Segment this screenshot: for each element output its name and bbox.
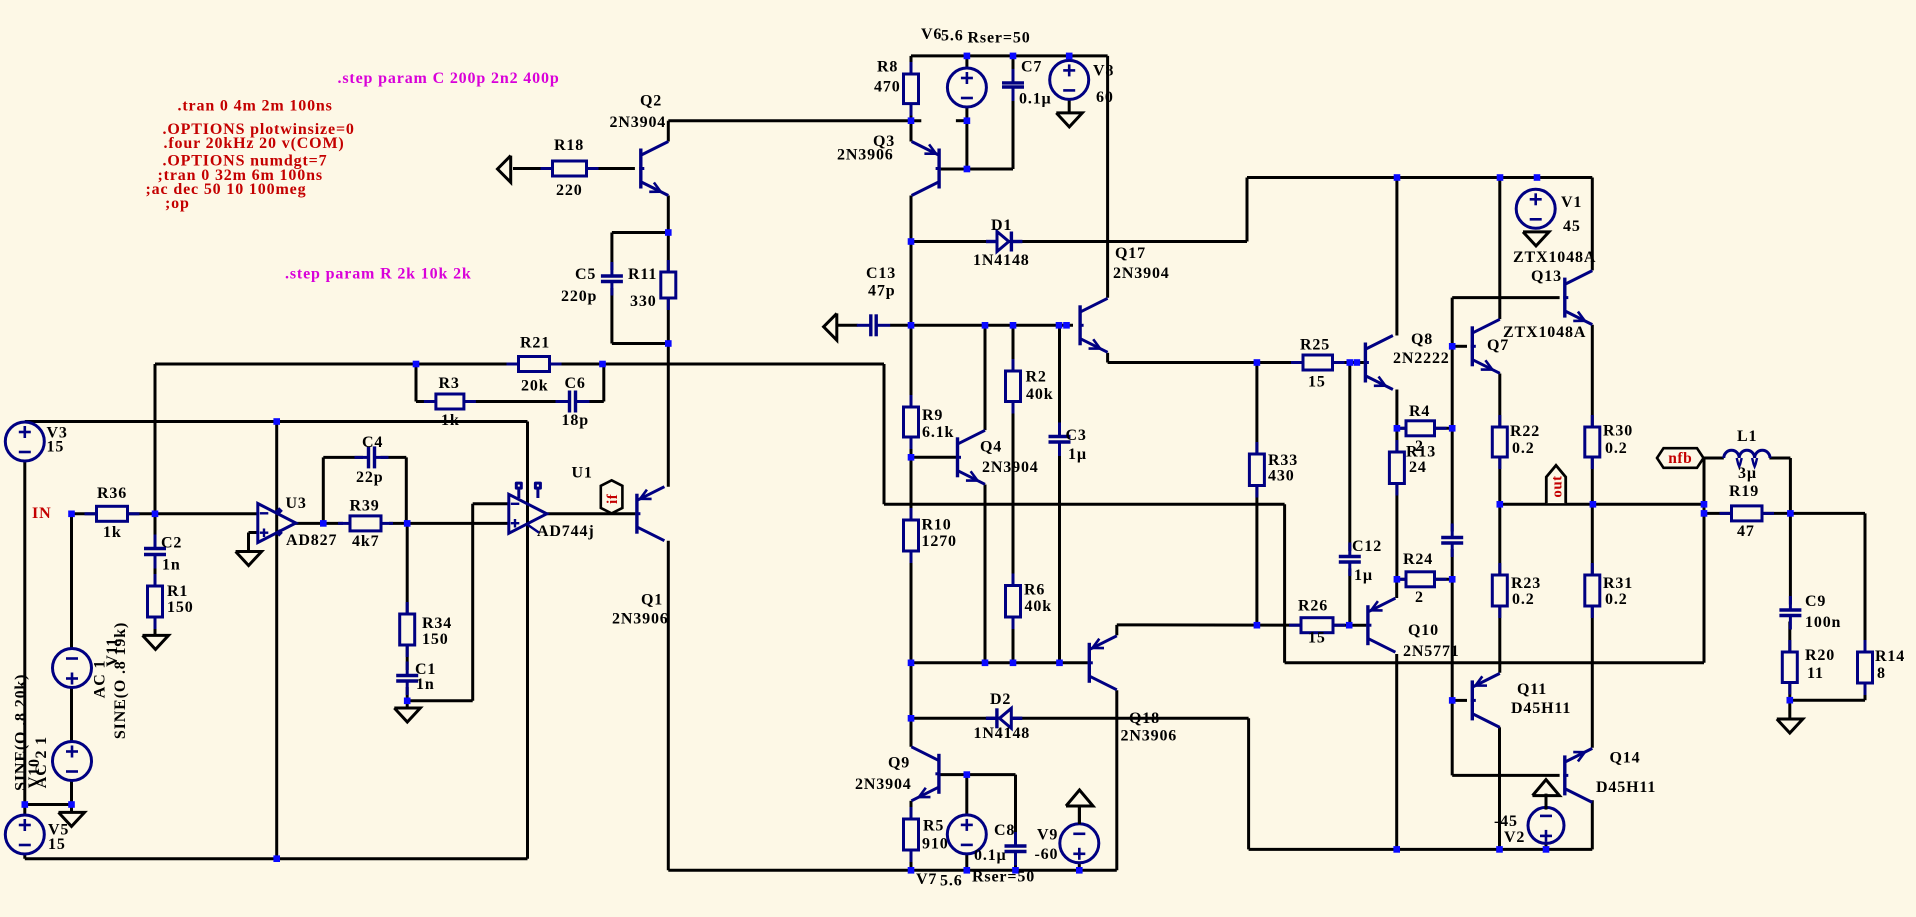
svg-text:-60: -60 — [1035, 846, 1059, 863]
svg-text:V7: V7 — [916, 871, 937, 888]
wire R3 drop — [415, 364, 418, 402]
capacitor C3 — [1048, 437, 1072, 443]
wire V6 top — [965, 56, 968, 68]
ground below V1 — [1523, 232, 1549, 246]
svg-text:C9: C9 — [1805, 593, 1826, 610]
svg-text:Q10: Q10 — [1408, 622, 1439, 639]
wire U1 minus bottom — [407, 699, 473, 702]
transistor Q11 — [1471, 680, 1474, 720]
wire R39 right to U1+ — [389, 522, 509, 525]
svg-text:C7: C7 — [1021, 59, 1042, 76]
wire V5 top tap — [25, 803, 72, 806]
resistor R4 — [1394, 427, 1406, 430]
wire bottom mid rail — [668, 869, 1117, 872]
svg-text:40k: 40k — [1025, 598, 1052, 615]
op-amp U3 — [258, 504, 296, 543]
resistor R22 — [1498, 415, 1501, 427]
svg-text:R23: R23 — [1511, 575, 1541, 592]
wire Q4 emitter down — [984, 485, 987, 663]
svg-text:SINE(O .8 19k): SINE(O .8 19k) — [112, 622, 129, 739]
svg-text:470: 470 — [874, 79, 901, 96]
wire gnd stem V10 — [70, 805, 73, 813]
wire C5 column — [610, 233, 613, 271]
resistor R8 — [910, 62, 913, 74]
wire V7 top — [965, 775, 968, 815]
wire Q13 emitter down — [1591, 325, 1594, 505]
wire Q1 collector down — [667, 541, 670, 871]
svg-text:V8: V8 — [1093, 63, 1114, 80]
wire R33 column — [1255, 363, 1258, 626]
svg-text:Q4: Q4 — [980, 439, 1002, 456]
capacitor C4 — [369, 445, 375, 469]
wire C6 rise — [602, 364, 605, 402]
svg-text:150: 150 — [167, 599, 194, 616]
svg-text:.tran 0 4m 2m 100ns: .tran 0 4m 2m 100ns — [178, 98, 333, 115]
wire L1 right — [1769, 457, 1790, 460]
ground below V10 — [59, 812, 85, 826]
wire Q13 base run — [1452, 296, 1559, 299]
resistor R25 — [1291, 361, 1303, 364]
svg-text:R5: R5 — [923, 818, 944, 835]
svg-text:V2: V2 — [1504, 829, 1525, 846]
svg-text:2N3904: 2N3904 — [610, 114, 667, 131]
voltage source V9 — [1060, 824, 1099, 863]
svg-text:2N3904: 2N3904 — [1113, 265, 1170, 282]
svg-text:24: 24 — [1409, 459, 1427, 476]
svg-text:430: 430 — [1268, 468, 1295, 485]
transistor Q2 — [639, 149, 642, 189]
resistor R13 — [1395, 440, 1398, 452]
svg-text:2N2222: 2N2222 — [1393, 350, 1450, 367]
op-amp U1 comp stub — [528, 525, 539, 533]
svg-text:Q11: Q11 — [1517, 681, 1547, 698]
svg-text:R10: R10 — [922, 517, 952, 534]
wire IN to R36 to U3 — [72, 512, 258, 515]
capacitor C11 — [1440, 538, 1464, 544]
wire Q18 base run — [911, 661, 1088, 664]
diode D1 — [986, 240, 997, 243]
wire nfb long run — [1285, 661, 1704, 664]
svg-text:R18: R18 — [554, 137, 584, 154]
ground below R20 — [1777, 719, 1803, 733]
wire Q18 emitter rise — [1115, 625, 1118, 635]
ground below C1 — [394, 708, 420, 722]
resistor R11 — [667, 260, 670, 272]
voltage source V6 — [947, 68, 986, 107]
wire Q1 emitter up — [667, 344, 670, 487]
wire C12 column upper — [1348, 363, 1351, 552]
svg-text:nfb: nfb — [1668, 450, 1692, 467]
wire net A across — [884, 503, 1285, 506]
svg-text:R22: R22 — [1510, 423, 1540, 440]
wire Q18 collector drop — [1115, 690, 1118, 870]
capacitor C8 — [1004, 846, 1028, 852]
op-amp U3 minus mark — [260, 512, 269, 514]
wire Q8 collector up — [1395, 178, 1398, 336]
wire bottom-left rail — [25, 857, 528, 860]
wire C3 column upper — [1058, 325, 1061, 431]
svg-text:C12: C12 — [1352, 538, 1382, 555]
svg-text:1270: 1270 — [922, 533, 957, 550]
wire R3-C6 run — [416, 400, 564, 403]
wire U3 out — [294, 522, 343, 525]
wire C13 left — [838, 324, 858, 327]
svg-text:15: 15 — [47, 439, 65, 456]
voltage source V5 — [5, 815, 44, 854]
voltage source V8 — [1050, 60, 1089, 99]
wire driver node column lower — [1451, 549, 1454, 775]
wire V11-V10 column — [70, 514, 73, 805]
svg-text:100n: 100n — [1805, 614, 1841, 631]
wire V3-V5 column — [23, 422, 26, 859]
wire R4 run — [1397, 427, 1452, 430]
wire C8 bottom — [1014, 858, 1017, 870]
svg-text:R14: R14 — [1875, 648, 1905, 665]
wire R31 column — [1591, 504, 1594, 748]
wire R14 drop — [1864, 513, 1867, 652]
transistor Q1 — [635, 494, 638, 534]
svg-text:0.2: 0.2 — [1512, 440, 1535, 457]
resistor R1 — [154, 574, 157, 586]
wire Q17 collector up — [1106, 56, 1109, 298]
wire U1 out to Q1 — [547, 512, 636, 515]
svg-text:C3: C3 — [1066, 427, 1087, 444]
svg-text:R2: R2 — [1026, 369, 1047, 386]
wire Q7 emitter down — [1498, 374, 1501, 505]
wire C4 right run — [381, 456, 407, 459]
svg-text:V9: V9 — [1037, 827, 1058, 844]
svg-text:IN: IN — [32, 505, 51, 522]
wire upper right rail — [1247, 176, 1592, 179]
wire nfb vertical — [1703, 458, 1706, 663]
wire top supply rail — [911, 54, 1108, 57]
svg-text:0.2: 0.2 — [1512, 591, 1535, 608]
wire bottom right rail — [1249, 848, 1593, 851]
svg-text:R6: R6 — [1024, 582, 1045, 599]
voltage source V7 — [947, 815, 986, 854]
wire V9 bottom — [1078, 863, 1081, 871]
wire D1 run — [911, 240, 1247, 243]
wire R8 top — [910, 56, 913, 74]
svg-text:R34: R34 — [422, 615, 452, 632]
svg-text:3µ: 3µ — [1738, 465, 1757, 482]
wire V3 top rail — [25, 420, 528, 423]
wire C5 bottom run — [612, 342, 668, 345]
wire C4 right drop — [405, 457, 408, 523]
wire Q9 base run — [940, 773, 1015, 776]
svg-text:R11: R11 — [628, 266, 657, 283]
svg-text:C4: C4 — [362, 434, 383, 451]
resistor R39 — [338, 522, 350, 525]
resistor R30 — [1591, 415, 1594, 427]
arrow flag above V9 — [1066, 790, 1093, 806]
wire vertical mid-left — [275, 422, 278, 859]
svg-text:15: 15 — [48, 836, 66, 853]
wire Q4 base run — [911, 456, 956, 459]
resistor R5 — [910, 807, 913, 819]
svg-text:Q2: Q2 — [640, 93, 662, 110]
ground below U3 — [236, 552, 262, 566]
svg-text:U3: U3 — [286, 495, 307, 512]
wire C4 tap — [322, 457, 325, 523]
wire R20-R14 bottom run — [1790, 699, 1865, 702]
wire Q14 collector down — [1591, 800, 1594, 849]
svg-text:V6: V6 — [921, 26, 942, 43]
svg-text:910: 910 — [922, 836, 949, 853]
wire driver node column upper — [1451, 298, 1454, 532]
svg-text:Q9: Q9 — [888, 755, 910, 772]
input arrow flag R18 — [498, 156, 511, 183]
wire V7 bottom — [965, 854, 968, 870]
svg-text:C8: C8 — [994, 822, 1015, 839]
wire Q17 emitter down — [1106, 353, 1109, 363]
svg-text:AD827: AD827 — [286, 532, 337, 549]
svg-text:0.1µ: 0.1µ — [1019, 91, 1052, 108]
svg-text:2N3906: 2N3906 — [837, 147, 894, 164]
svg-text:R36: R36 — [97, 485, 127, 502]
capacitor C6 — [570, 390, 576, 414]
svg-text:if: if — [605, 493, 621, 504]
svg-text:Q17: Q17 — [1115, 245, 1146, 262]
wire V8 top — [1068, 56, 1071, 61]
diode D2 — [1011, 717, 1022, 720]
wire Q3 base run — [941, 168, 1013, 171]
input arrow flag C13 — [824, 313, 837, 340]
wire C7 top — [1012, 56, 1015, 77]
wire Q13 collector up — [1591, 178, 1594, 271]
resistor R6 — [1012, 574, 1015, 586]
wire R34 column — [406, 523, 409, 614]
svg-text:C6: C6 — [565, 375, 586, 392]
transistor Q8 — [1364, 343, 1367, 383]
svg-text:220p: 220p — [561, 288, 597, 305]
wire V6 bottom drop — [965, 107, 968, 169]
wire Q3 collector column — [910, 196, 913, 747]
resistor R24 — [1394, 578, 1406, 581]
svg-text:-45: -45 — [1494, 813, 1518, 830]
wire Q11 collector down — [1498, 727, 1501, 849]
wire gnd stem R20 — [1788, 700, 1791, 719]
svg-text:Q8: Q8 — [1411, 331, 1433, 348]
capacitor C9 — [1778, 610, 1802, 616]
svg-text:AD744j: AD744j — [537, 523, 595, 540]
wire Q11 base stub — [1452, 699, 1467, 702]
resistor R34 — [406, 602, 409, 614]
svg-text:V1: V1 — [1561, 194, 1582, 211]
junction dots — [68, 511, 75, 518]
svg-text:22p: 22p — [356, 469, 383, 486]
svg-text:1N4148: 1N4148 — [974, 725, 1031, 742]
wire Q8 emitter down — [1395, 390, 1398, 580]
svg-text:.step param C 200p 2n2 400p: .step param C 200p 2n2 400p — [338, 70, 560, 87]
svg-text:1k: 1k — [103, 524, 122, 541]
wire R5 bottom — [910, 850, 913, 870]
svg-text:45: 45 — [1563, 218, 1581, 235]
wire R24 run — [1397, 578, 1452, 581]
svg-text:20k: 20k — [521, 378, 548, 395]
wire U1 minus top — [473, 502, 509, 505]
wire R18 to Q2 base — [513, 167, 635, 170]
svg-text:5.6: 5.6 — [940, 873, 963, 890]
op-amp U3 power pins — [276, 507, 283, 514]
svg-text:1n: 1n — [162, 557, 181, 574]
wire Q10 collector down — [1395, 654, 1398, 849]
wire C6 right — [582, 400, 604, 403]
svg-text:R19: R19 — [1729, 483, 1759, 500]
wire R19 run — [1704, 512, 1790, 515]
svg-text:0.2: 0.2 — [1605, 440, 1628, 457]
voltage source V10 — [53, 742, 92, 781]
transistor Q14 — [1563, 755, 1566, 795]
svg-text:C2: C2 — [161, 535, 182, 552]
resistor R2 — [1012, 359, 1015, 371]
wire Q2 collector up — [667, 121, 670, 142]
wire Q7 base stub — [1452, 345, 1467, 348]
svg-text:1k: 1k — [441, 412, 460, 429]
svg-text:15: 15 — [1308, 630, 1326, 647]
svg-text:R25: R25 — [1300, 337, 1330, 354]
wire C9-R20 — [1788, 622, 1791, 653]
transistor Q7 — [1471, 326, 1474, 366]
resistor R36 — [85, 512, 97, 515]
op-amp U1 minus mark — [511, 503, 520, 505]
svg-text:4k7: 4k7 — [352, 533, 379, 550]
svg-text:Rser=50: Rser=50 — [968, 30, 1031, 47]
svg-text:R13: R13 — [1406, 444, 1436, 461]
wire R19 to R14 — [1790, 512, 1865, 515]
wire Q10 emitter up — [1395, 579, 1398, 598]
svg-text:R24: R24 — [1403, 551, 1433, 568]
wire D1 rise — [1246, 178, 1249, 242]
svg-text:1µ: 1µ — [1068, 446, 1087, 463]
svg-text:ZTX1048A: ZTX1048A — [1503, 324, 1586, 341]
svg-text:R26: R26 — [1298, 598, 1328, 615]
transistor Q4 — [956, 437, 959, 477]
svg-text:C5: C5 — [575, 266, 596, 283]
svg-text:8: 8 — [1877, 665, 1886, 682]
wire right vertical of left loop — [526, 422, 529, 859]
svg-text:D45H11: D45H11 — [1511, 700, 1571, 717]
wire D2 drop — [1247, 718, 1250, 849]
resistor R33 — [1255, 442, 1258, 454]
inductor L1 — [1724, 450, 1770, 458]
svg-text:18p: 18p — [562, 412, 589, 429]
wire R8 bottom — [910, 104, 913, 121]
svg-text:D1: D1 — [991, 217, 1012, 234]
wire Q4 collector up — [984, 325, 987, 430]
wire C1-gnd node — [406, 687, 409, 708]
svg-text:2N3904: 2N3904 — [982, 459, 1039, 476]
wire Q7 collector up — [1498, 178, 1501, 320]
wire R20 bottom — [1788, 683, 1791, 701]
resistor R26 — [1289, 624, 1301, 627]
svg-text:47: 47 — [1737, 523, 1755, 540]
resistor R3 — [424, 400, 436, 403]
capacitor C12 — [1338, 557, 1362, 563]
svg-text:0.1µ: 0.1µ — [974, 847, 1007, 864]
capacitor C5 — [600, 276, 624, 282]
arrow flag above V2 — [1533, 780, 1560, 796]
ground below R1 — [143, 635, 169, 649]
wire C8 drop — [1014, 775, 1017, 841]
wire U3 gnd drop — [247, 533, 250, 552]
wire net A down — [883, 364, 886, 504]
wire V2 stem — [1545, 794, 1548, 808]
wire R23 column — [1498, 504, 1501, 673]
wire Q18 emitter run y625 — [1117, 623, 1349, 626]
svg-text:AC 2 1: AC 2 1 — [33, 736, 50, 788]
svg-text:40k: 40k — [1026, 386, 1053, 403]
transistor Q13 — [1563, 278, 1566, 318]
svg-text:R20: R20 — [1805, 647, 1835, 664]
svg-text:1µ: 1µ — [1354, 567, 1373, 584]
svg-text:1n: 1n — [416, 676, 435, 693]
svg-text:1N4148: 1N4148 — [973, 252, 1030, 269]
svg-text:out: out — [1549, 475, 1565, 497]
svg-text:R30: R30 — [1603, 423, 1633, 440]
op-amp U3 plus mark — [260, 532, 269, 534]
wire V8 gnd — [1068, 99, 1071, 113]
svg-text:5.6: 5.6 — [941, 28, 964, 45]
svg-text:2N3906: 2N3906 — [612, 611, 669, 628]
svg-text:6.1k: 6.1k — [922, 424, 954, 441]
wire U1 minus drop — [471, 504, 474, 701]
wire R1-gnd — [154, 617, 157, 635]
svg-text:15: 15 — [1308, 374, 1326, 391]
svg-text:R31: R31 — [1603, 575, 1633, 592]
wire D2 run — [911, 717, 1249, 720]
wire V2 bottom — [1545, 843, 1548, 849]
wire Q2 collector rail — [668, 119, 921, 122]
wire Q14 base run — [1452, 774, 1559, 777]
svg-text:;op: ;op — [165, 195, 190, 212]
net flag if — [601, 480, 623, 513]
svg-text:R39: R39 — [350, 498, 380, 515]
resistor R10 — [910, 508, 913, 520]
svg-text:Q18: Q18 — [1129, 710, 1160, 727]
capacitor C1 — [395, 676, 419, 682]
svg-text:2N3906: 2N3906 — [1121, 728, 1178, 745]
wire V6 stub — [956, 119, 967, 122]
transistor Q10 — [1366, 605, 1369, 645]
svg-text:R8: R8 — [877, 59, 898, 76]
voltage source V1 — [1516, 189, 1555, 228]
svg-text:0.2: 0.2 — [1605, 591, 1628, 608]
svg-text:2: 2 — [1415, 589, 1424, 606]
transistor Q18 — [1088, 643, 1091, 683]
svg-text:D45H11: D45H11 — [1596, 779, 1656, 796]
wire C4 top run — [323, 456, 363, 459]
resistor R21 — [507, 363, 519, 366]
svg-text:R4: R4 — [1409, 403, 1430, 420]
svg-text:R1: R1 — [167, 583, 188, 600]
wire C5 lower column — [610, 288, 613, 344]
svg-text:2N3904: 2N3904 — [855, 776, 912, 793]
resistor R19 — [1720, 512, 1732, 515]
wire C5 top run — [612, 231, 668, 234]
wire V9 stem — [1078, 806, 1081, 824]
capacitor C7 — [1001, 83, 1025, 87]
wire Q3 emitter up — [910, 121, 913, 142]
svg-text:C13: C13 — [866, 265, 896, 282]
svg-text:D2: D2 — [990, 691, 1011, 708]
wire net A down2 — [1283, 504, 1286, 663]
svg-text:Rser=50: Rser=50 — [972, 869, 1035, 886]
voltage source V11 — [53, 649, 92, 688]
transistor Q9 — [937, 754, 940, 794]
svg-text:47p: 47p — [868, 283, 895, 300]
wire C9 top — [1789, 513, 1792, 604]
